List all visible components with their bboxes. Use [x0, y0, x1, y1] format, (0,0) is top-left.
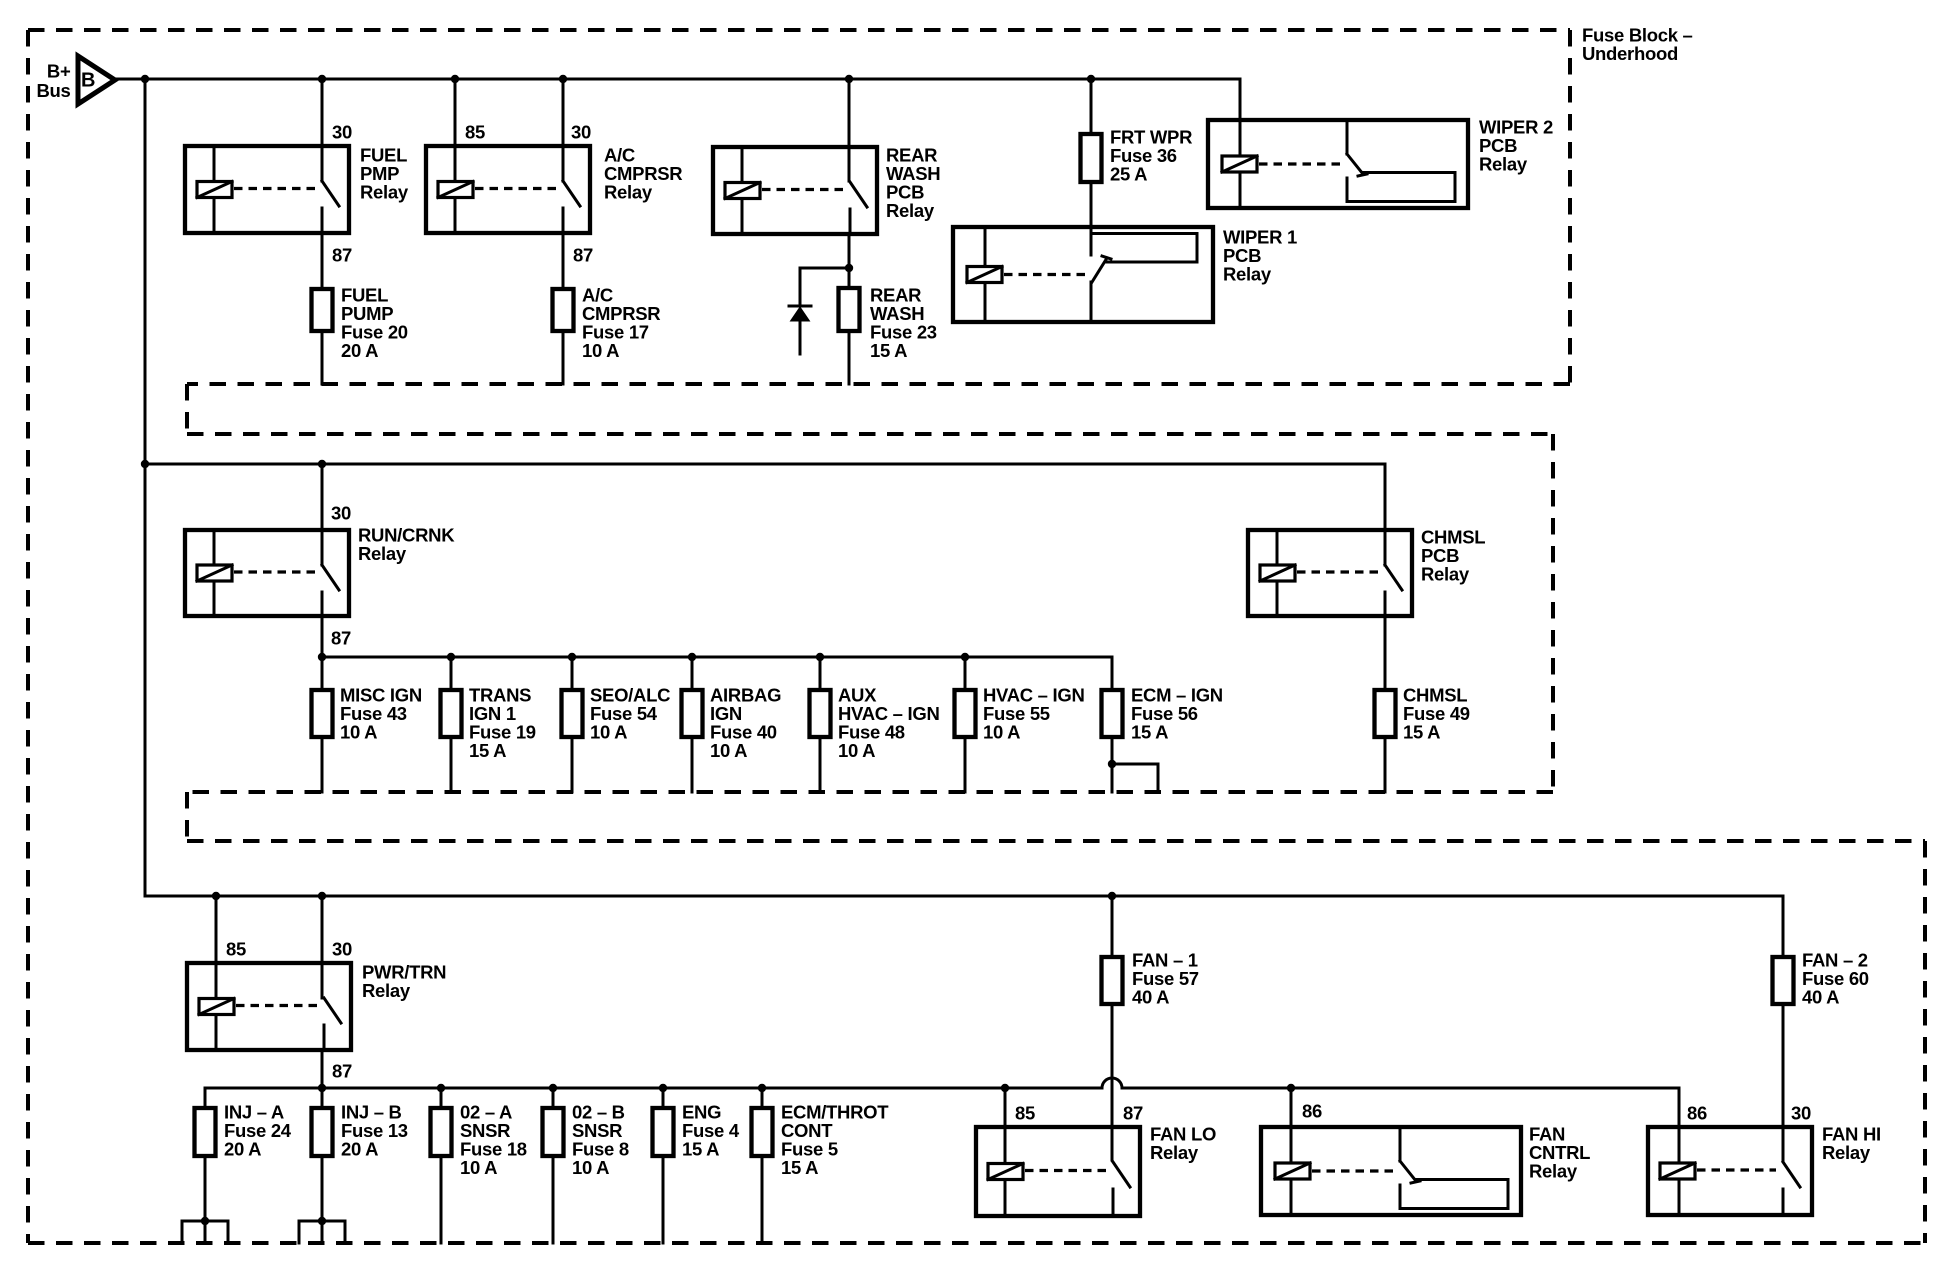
wire: FRT WPR fuse to WIPER 1 relay switch [1090, 184, 1093, 255]
wire: engine bus corner drop to INJ-A fuse [204, 1088, 207, 1106]
relay FAN CNTRL: output bottom run [1400, 1207, 1508, 1210]
svg-text:86: 86 [1687, 1102, 1707, 1123]
wire: engine bus to 02-A SNSR Fuse 18 [440, 1088, 443, 1106]
relay WIPER 2 PCB: blade tip tick [1358, 174, 1367, 176]
wire: REAR WASH relay output [848, 234, 851, 286]
wire: engine bus hop over FAN-1 wire [1102, 1078, 1122, 1088]
fuse TRANS IGN 1 Fuse 19 [441, 690, 462, 737]
junction: B+ bus / REAR WASH relay pin 30 [845, 75, 853, 83]
junction: B+ bus / A/C CMPRSR relay pin 30 [559, 75, 567, 83]
fuse ECM/THROT CONT Fuse 5 [752, 1108, 773, 1156]
svg-text:30: 30 [332, 121, 352, 142]
svg-text:87: 87 [573, 244, 593, 265]
ground symbol at INJ-B Fuse 13 output [299, 1217, 345, 1243]
wire: lower feed to PWR/TRN relay pin 30 [321, 896, 324, 998]
wire: B+ bus to FUEL PMP relay pin 30 [321, 79, 324, 181]
relay FAN CNTRL: blade tip tick [1411, 1181, 1420, 1183]
wire: ECM-IGN output stub drop [1157, 764, 1160, 792]
wire: engine bus to INJ-B Fuse 13 [321, 1088, 324, 1106]
svg-text:30: 30 [331, 502, 351, 523]
svg-text:87: 87 [331, 627, 351, 648]
wire: RUN/CRNK pin 87 to ignition bus [321, 616, 324, 657]
relay WIPER 2 PCB: coil [1222, 156, 1257, 172]
relay A/C CMPRSR: coil [438, 182, 473, 198]
relay REAR WASH PCB: coil [725, 183, 760, 199]
junction: ignition bus / MISC IGN fuse [318, 653, 326, 661]
wire: ignition bus horizontal [322, 656, 1112, 659]
relay FAN HI: switch blade [1783, 1162, 1800, 1187]
relay A/C CMPRSR: coil diagonal [438, 182, 473, 198]
wire: ignition bus to TRANS IGN 1 Fuse 19 [450, 657, 453, 688]
relay RUN/CRNK: box [185, 530, 349, 616]
relay A/C CMPRSR: coil pin wire upper [454, 146, 457, 182]
relay PWR/TRN: coil [199, 999, 234, 1015]
relay A/C CMPRSR: coil-switch dashed link [475, 187, 556, 190]
relay RUN/CRNK: coil pin wire lower [213, 581, 216, 616]
fuse MISC IGN Fuse 43 [312, 690, 333, 737]
junction: ECM-IGN fuse output / stub [1108, 760, 1116, 768]
svg-text:B: B [81, 70, 95, 92]
relay CHMSL PCB Relay [1248, 530, 1412, 616]
relay WIPER 2 PCB: coil-switch dashed link [1259, 162, 1341, 165]
relay PWR/TRN: coil pin wire lower [215, 1015, 218, 1051]
fuse block boundary: bottom dashed border of top section [187, 382, 1570, 386]
wire: WIPER 2 coil feed drop [1239, 79, 1242, 155]
svg-text:30: 30 [332, 938, 352, 959]
relay WIPER 2 PCB: output bottom run [1347, 200, 1455, 203]
wire: engine bus to FAN LO relay pin 85 [1004, 1088, 1007, 1162]
fuse INJ-A Fuse 24 [195, 1108, 216, 1156]
fuse block boundary: left dashed jog between top and middle sections [185, 384, 189, 434]
fuse block boundary: top dashed border of middle section [187, 432, 1553, 436]
wire: CHMSL relay output to CHMSL fuse [1384, 616, 1387, 688]
relay PWR/TRN: coil pin wire upper [215, 963, 218, 999]
wire: ignition bus to MISC IGN Fuse 43 [321, 657, 324, 688]
relay RUN/CRNK: coil pin wire upper [213, 530, 216, 565]
relay CHMSL PCB: coil [1260, 565, 1295, 581]
svg-text:Fuse Block –Underhood: Fuse Block –Underhood [1582, 24, 1693, 64]
wire: ignition bus to AUX HVAC IGN Fuse 48 [819, 657, 822, 688]
relay FAN HI: coil pin wire lower [1678, 1179, 1681, 1215]
wire: diode branch vertical upper [799, 268, 802, 306]
relay A/C CMPRSR Relay [426, 146, 590, 233]
relay RUN/CRNK: switch blade [322, 565, 339, 590]
fuse block boundary: top dashed border [28, 28, 1570, 32]
relay WIPER 2 PCB: coil pin wire lower [1239, 172, 1242, 208]
relay RUN/CRNK Relay [185, 530, 349, 616]
relay FAN CNTRL: coil-switch dashed link [1312, 1169, 1394, 1172]
relay FUEL PMP: coil-switch dashed link [234, 187, 315, 190]
junction: engine bus / ECM-THROT fuse [758, 1084, 766, 1092]
relay FAN HI: coil diagonal [1660, 1163, 1695, 1179]
relay REAR WASH PCB: coil pin wire upper [741, 147, 744, 183]
relay CHMSL PCB: switch blade [1385, 565, 1402, 590]
wire: FAN-2 fuse feed drop [1782, 896, 1785, 955]
relay FUEL PMP: box [185, 146, 349, 233]
relay WIPER 1 PCB: switch blade [1092, 258, 1107, 282]
junction: lower feed / PWR-TRN relay pin 85 [212, 892, 220, 900]
relay WIPER 1 PCB: output top run [1091, 232, 1197, 235]
relay REAR WASH PCB: box [713, 147, 877, 234]
svg-text:30: 30 [571, 121, 591, 142]
relay WIPER 1 PCB: box [953, 227, 1213, 322]
wire: B+ bus top horizontal [115, 78, 1240, 81]
relay FAN CNTRL: output vertical [1507, 1180, 1510, 1209]
relay WIPER 1 PCB: coil-switch dashed link [1004, 273, 1085, 276]
wire: 02-B SNSR Fuse 8 output [552, 1158, 555, 1243]
junction: engine bus / FAN LO relay pin 85 [1001, 1084, 1009, 1092]
relay CHMSL PCB: coil pin wire lower [1276, 581, 1279, 616]
diode CR (REAR WASH suppression): cathode bar [789, 305, 811, 308]
relay WIPER 1 PCB: output vertical [1196, 234, 1199, 263]
junction: B+ bus / A/C CMPRSR relay pin 85 [451, 75, 459, 83]
relay FAN CNTRL: box [1261, 1127, 1521, 1215]
fuse block boundary: bottom dashed border of middle section [187, 790, 1553, 794]
relay FAN CNTRL: coil diagonal [1275, 1163, 1310, 1179]
relay FAN HI Relay [1648, 1127, 1812, 1215]
relay CHMSL PCB: box [1248, 530, 1412, 616]
svg-text:87: 87 [332, 1060, 352, 1081]
junction: lower feed / PWR-TRN relay pin 30 [318, 892, 326, 900]
wire: ignition feed horizontal [145, 463, 1385, 466]
relay FAN CNTRL: output horizontal [1416, 1178, 1508, 1181]
fuse SEO/ALC Fuse 54 [562, 690, 583, 737]
relay WIPER 1 PCB: switch lower stub [1090, 282, 1093, 322]
svg-text:30: 30 [1791, 1102, 1811, 1123]
junction: B+ bus / FUEL PMP relay pin 30 [318, 75, 326, 83]
relay FAN LO: box [976, 1127, 1140, 1216]
relay FAN LO: switch blade [1113, 1162, 1130, 1187]
svg-text:85: 85 [226, 938, 246, 959]
wire: engine bus to FAN CNTRL relay pin 86 [1290, 1088, 1293, 1162]
wire: REAR WASH fuse to fuse block boundary [848, 333, 851, 384]
fuse block boundary: bottom dashed border [28, 1241, 1925, 1245]
relay WIPER 1 PCB Relay [953, 227, 1213, 322]
wire: 02-A SNSR Fuse 18 output [440, 1158, 443, 1243]
fuse block boundary: right dashed border of bottom section [1923, 841, 1927, 1243]
relay WIPER 2 PCB: output vertical [1454, 173, 1457, 202]
relay FAN HI: coil-switch dashed link [1697, 1168, 1776, 1171]
relay FAN HI: box [1648, 1127, 1812, 1215]
relay CHMSL PCB: coil diagonal [1260, 565, 1295, 581]
relay FAN HI: coil pin wire upper [1678, 1127, 1681, 1163]
relay FAN CNTRL Relay [1261, 1127, 1521, 1215]
junction: ignition bus / AIRBAG IGN Fuse 40 [688, 653, 696, 661]
wire: ignition bus to AIRBAG IGN Fuse 40 [691, 657, 694, 688]
junction: ignition feed / RUN-CRNK relay pin 30 [318, 460, 326, 468]
wire: INJ-A Fuse 24 output [204, 1158, 207, 1243]
relay FUEL PMP: switch blade [322, 181, 339, 206]
wire: A/C CMPRSR fuse to fuse block boundary [562, 333, 565, 384]
relay WIPER 2 PCB: box [1208, 120, 1468, 208]
relay WIPER 1 PCB: coil diagonal [967, 267, 1002, 283]
relay REAR WASH PCB: switch lower stub [849, 209, 852, 234]
fuse AUX HVAC IGN Fuse 48 [810, 690, 831, 737]
relay A/C CMPRSR: coil pin wire lower [454, 198, 457, 234]
fuse INJ-B Fuse 13 [312, 1108, 333, 1156]
fuse block boundary: right dashed border of middle section [1551, 434, 1555, 792]
wire: ignition feed to RUN/CRNK relay pin 30 [321, 464, 324, 565]
fuse block boundary: right dashed border of top section [1568, 30, 1572, 384]
relay FAN CNTRL: coil pin wire lower [1290, 1179, 1293, 1215]
relay FUEL PMP: coil pin wire upper [213, 146, 216, 182]
relay FAN LO: coil [988, 1164, 1023, 1180]
junction: engine bus / ENG fuse [659, 1084, 667, 1092]
fuse block boundary: outer dashed border left side [26, 30, 30, 1243]
wire: diode branch horizontal [800, 267, 849, 270]
relay PWR/TRN: switch lower stub [323, 1025, 326, 1050]
svg-text:86: 86 [1302, 1100, 1322, 1121]
relay WIPER 2 PCB: switch lower stub [1346, 178, 1349, 202]
relay CHMSL PCB: coil-switch dashed link [1297, 570, 1378, 573]
wire: diode branch vertical lower (open end) [799, 321, 802, 354]
relay WIPER 2 PCB: coil pin wire upper [1239, 120, 1242, 156]
wire: ECM IGN Fuse 56 to fuse block boundary [1111, 739, 1114, 792]
wire: B+ bus to FRT WPR fuse [1090, 79, 1093, 132]
svg-text:REARWASHPCBRelay: REARWASHPCBRelay [886, 144, 940, 221]
relay PWR/TRN: box [187, 963, 351, 1050]
fuse ENG Fuse 4 [653, 1108, 674, 1156]
fuse FUEL PUMP Fuse 20 [312, 289, 333, 331]
relay REAR WASH PCB: switch blade [850, 182, 867, 207]
relay CHMSL PCB: switch lower stub [1384, 592, 1387, 616]
junction: ignition bus / SEO/ALC Fuse 54 [568, 653, 576, 661]
relay A/C CMPRSR: box [426, 146, 590, 233]
wire: engine bus corner drop to FAN HI relay pin 86 [1678, 1088, 1681, 1162]
relay PWR/TRN: coil-switch dashed link [236, 1004, 317, 1007]
relay WIPER 2 PCB: output horizontal [1363, 171, 1455, 174]
relay FAN LO: coil pin wire upper [1004, 1127, 1007, 1164]
wire: ignition bus to HVAC IGN Fuse 55 [964, 657, 967, 688]
fuse 02-B SNSR Fuse 8 [543, 1108, 564, 1156]
junction: engine bus / FAN CNTRL relay pin 86 [1287, 1084, 1295, 1092]
wire: ECM-IGN output stub horizontal [1112, 763, 1158, 766]
wire: ignition feed drop to CHMSL relay [1384, 464, 1387, 565]
junction: engine bus / INJ-B fuse and PWR-TRN 87 [318, 1084, 326, 1092]
wire: engine bus horizontal (left of hop) [205, 1087, 1102, 1090]
relay WIPER 1 PCB: coil pin wire upper [984, 227, 987, 267]
relay FUEL PMP: coil pin wire lower [213, 198, 216, 234]
wire: TRANS IGN 1 Fuse 19 to fuse block boundary [450, 739, 453, 792]
fuse ECM IGN Fuse 56 [1102, 690, 1123, 737]
wire: CHMSL fuse to fuse block boundary [1384, 739, 1387, 792]
junction: engine bus / 02-A SNSR fuse [437, 1084, 445, 1092]
wire: B+ bus to A/C CMPRSR relay pin 30 [562, 79, 565, 181]
relay REAR WASH PCB Relay [713, 147, 877, 234]
relay REAR WASH PCB: coil diagonal [725, 183, 760, 199]
wire: engine bus to ECM/THROT CONT Fuse 5 [761, 1088, 764, 1106]
relay FAN LO: coil diagonal [988, 1164, 1023, 1180]
wire: lower feed to PWR/TRN relay pin 85 [215, 896, 218, 963]
relay WIPER 1 PCB: coil pin wire lower [984, 283, 987, 323]
svg-text:87: 87 [1123, 1102, 1143, 1123]
relay RUN/CRNK: coil diagonal [197, 565, 232, 581]
wire: AUX HVAC IGN Fuse 48 to fuse block boundary [819, 739, 822, 792]
wire: B+ bus to REAR WASH relay switch [848, 79, 851, 181]
relay WIPER 2 PCB: switch blade [1347, 154, 1363, 174]
relay FAN CNTRL: switch lower stub [1399, 1185, 1402, 1209]
fuse AIRBAG IGN Fuse 40 [682, 690, 703, 737]
wire: left vertical feeder [144, 79, 147, 896]
relay RUN/CRNK: switch lower stub [321, 592, 324, 616]
relay WIPER 2 PCB: coil diagonal [1222, 156, 1257, 172]
junction: B+ bus / FRT WPR fuse [1087, 75, 1095, 83]
relay FUEL PMP Relay [185, 146, 349, 233]
wire: SEO/ALC Fuse 54 to fuse block boundary [571, 739, 574, 792]
relay REAR WASH PCB: coil-switch dashed link [762, 188, 843, 191]
junction: lower feed / FAN-1 fuse [1108, 892, 1116, 900]
fuse block boundary: left dashed jog between middle and bottom sections [185, 792, 189, 841]
fuse REAR WASH Fuse 23 [839, 288, 860, 331]
junction: ignition bus / AUX HVAC IGN Fuse 48 [816, 653, 824, 661]
wire: FUEL PMP relay pin 87 to FUEL PUMP fuse [321, 233, 324, 287]
wire: battery feed lower horizontal [145, 895, 1783, 898]
wire: engine bus to ENG Fuse 4 [662, 1088, 665, 1106]
junction: ignition bus / TRANS IGN 1 Fuse 19 [447, 653, 455, 661]
fuse 02-A SNSR Fuse 18 [431, 1108, 452, 1156]
relay REAR WASH PCB: coil pin wire lower [741, 199, 744, 235]
relay WIPER 1 PCB: output horizontal [1107, 261, 1197, 264]
relay WIPER 1 PCB: blade tip tick [1102, 256, 1111, 259]
wire: engine bus to 02-B SNSR Fuse 8 [552, 1088, 555, 1106]
relay FAN HI: switch lower stub [1782, 1189, 1785, 1215]
relay WIPER 2 PCB: switch feed from box top [1346, 120, 1349, 154]
relay PWR/TRN: coil diagonal [199, 999, 234, 1015]
fuse block boundary: top dashed border of bottom section [187, 839, 1925, 843]
wire: MISC IGN Fuse 43 to fuse block boundary [321, 739, 324, 792]
junction: engine bus / 02-B SNSR fuse [549, 1084, 557, 1092]
relay A/C CMPRSR: switch lower stub [562, 208, 565, 233]
node B+ Bus: triangle symbol [78, 56, 115, 104]
relay FAN CNTRL: coil pin wire upper [1290, 1127, 1293, 1163]
relay CHMSL PCB: coil pin wire upper [1276, 530, 1279, 565]
wire: HVAC IGN Fuse 55 to fuse block boundary [964, 739, 967, 792]
svg-text:85: 85 [1015, 1102, 1035, 1123]
wire: FAN-2 fuse to FAN HI relay pin 30 [1782, 1006, 1785, 1160]
junction: B+ bus / left vertical feeder [141, 75, 149, 83]
wire: INJ-B Fuse 13 output [321, 1158, 324, 1243]
wire: ignition bus to SEO/ALC Fuse 54 [571, 657, 574, 688]
relay FUEL PMP: switch lower stub [321, 208, 324, 233]
junction: REAR WASH output / diode branch [845, 264, 853, 272]
wire: lower feed to FAN-1 fuse [1111, 896, 1114, 955]
svg-text:85: 85 [465, 121, 485, 142]
wire: ECM/THROT CONT Fuse 5 output [761, 1158, 764, 1243]
wire: FUEL PUMP fuse to fuse block boundary [321, 333, 324, 384]
relay RUN/CRNK: coil [197, 565, 232, 581]
relay FUEL PMP: coil [197, 182, 232, 198]
wire: AIRBAG IGN Fuse 40 to fuse block boundary [691, 739, 694, 792]
relay WIPER 2 PCB Relay [1208, 120, 1468, 208]
relay FAN HI: coil [1660, 1163, 1695, 1179]
relay RUN/CRNK: coil-switch dashed link [234, 570, 315, 573]
fuse FAN-2 Fuse 60 [1773, 957, 1794, 1004]
wire: ENG Fuse 4 output [662, 1158, 665, 1243]
wire: B+ bus to A/C CMPRSR relay pin 85 [454, 79, 457, 146]
relay FAN LO: coil-switch dashed link [1025, 1169, 1106, 1172]
relay FAN LO: coil pin wire lower [1004, 1180, 1007, 1217]
relay FUEL PMP: coil diagonal [197, 182, 232, 198]
relay A/C CMPRSR: switch blade [563, 181, 580, 206]
wire: ignition bus corner drop to ECM-IGN fuse [1111, 657, 1114, 688]
wire: A/C CMPRSR relay pin 87 to A/C CMPRSR fuse [562, 233, 565, 287]
relay FAN CNTRL: switch blade [1400, 1161, 1416, 1181]
diode CR (REAR WASH suppression): anode triangle [791, 307, 810, 321]
wire: engine bus horizontal (right of hop) [1122, 1087, 1679, 1090]
fuse A/C CMPRSR Fuse 17 [553, 289, 574, 331]
relay PWR/TRN: switch blade [324, 998, 341, 1023]
fuse HVAC IGN Fuse 55 [955, 690, 976, 737]
fuse FRT WPR Fuse 36 [1081, 134, 1102, 182]
relay FAN LO Relay [976, 1127, 1140, 1216]
relay PWR/TRN Relay [187, 963, 351, 1050]
fuse FAN-1 Fuse 57 [1102, 957, 1123, 1004]
ground symbol at INJ-A Fuse 24 output [182, 1217, 228, 1243]
wire: PWR/TRN pin 87 to engine bus [321, 1050, 324, 1088]
junction: ignition bus / HVAC IGN Fuse 55 [961, 653, 969, 661]
svg-text:87: 87 [332, 244, 352, 265]
relay FAN LO: switch lower stub [1112, 1189, 1115, 1216]
relay FAN CNTRL: switch feed from box top [1399, 1127, 1402, 1161]
relay FAN CNTRL: coil [1275, 1163, 1310, 1179]
wire: FAN-1 fuse to FAN LO relay pin 87 [1111, 1006, 1114, 1160]
junction: left feeder / ignition feed [141, 460, 149, 468]
fuse CHMSL Fuse 49 [1375, 690, 1396, 737]
relay WIPER 1 PCB: coil [967, 267, 1002, 283]
